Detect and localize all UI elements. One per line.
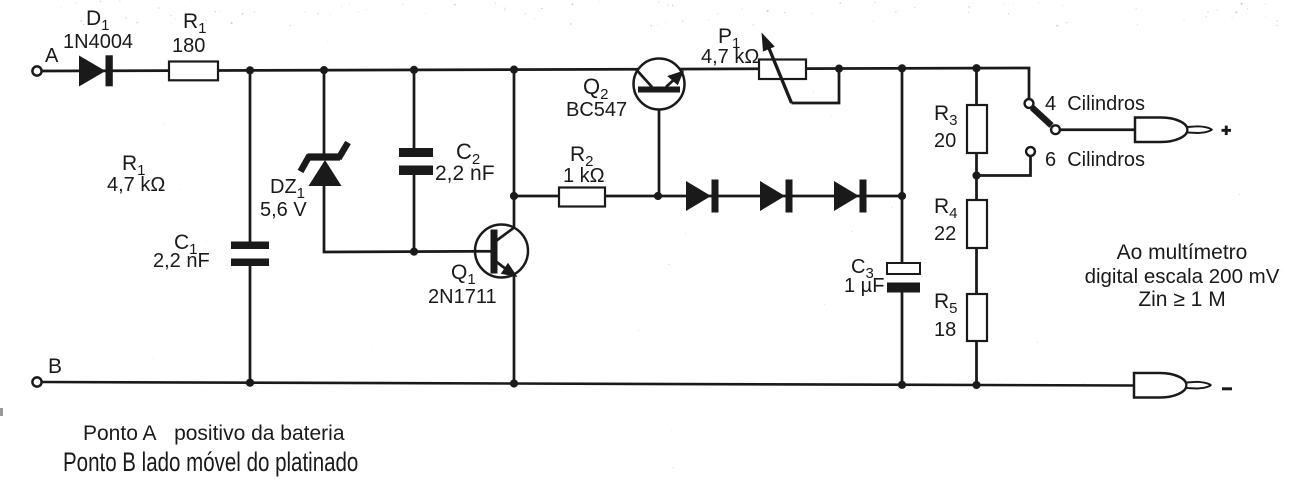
switch contact: 6 cylinders: [1026, 147, 1035, 156]
node: Q1 collector / R2: [510, 192, 518, 200]
switch contact: pole: [1051, 125, 1060, 134]
diode D2 (chain): [686, 180, 719, 213]
wire: C2 branch upper: [413, 70, 416, 149]
svg-text:digital escala 200 mV: digital escala 200 mV: [1085, 265, 1280, 288]
node: R3-R4 / 6-cylinder tap: [972, 171, 980, 179]
diode D4 (chain): [834, 180, 867, 213]
node: top rail / right rail: [898, 64, 906, 72]
wire: right vertical rail through C3 (upper): [901, 68, 904, 263]
svg-text:BC547: BC547: [566, 99, 627, 121]
wire: 6-cylinder contact to R3/R4 node: [977, 155, 1031, 176]
wire: right vertical rail through C3 (lower): [901, 293, 904, 385]
svg-text:4,7 kΩ: 4,7 kΩ: [701, 46, 759, 68]
node: bottom rail / Q1 emitter: [510, 379, 518, 387]
svg-text:1 µF: 1 µF: [844, 275, 884, 297]
label +: [1222, 126, 1232, 136]
diode D3 (chain): [760, 180, 793, 213]
svg-text:4,7 kΩ: 4,7 kΩ: [107, 174, 165, 196]
node: top rail / C1: [246, 66, 254, 74]
node: bottom rail / resistor chain: [972, 381, 980, 389]
svg-text:D1: D1: [86, 7, 110, 34]
wire: resistor chain rail R3-R4-R5: [975, 68, 978, 385]
wire: DZ1 branch upper: [323, 70, 326, 154]
node: top rail / P1 wiper return: [835, 65, 843, 73]
svg-text:R4: R4: [934, 195, 958, 222]
wire: switch pole to positive plug: [1060, 128, 1136, 131]
resistor R4 (22): [967, 200, 987, 248]
svg-text:5,6 V: 5,6 V: [260, 199, 307, 221]
resistor R3 (20): [967, 105, 987, 153]
resistor R2 (1 k): [559, 188, 605, 207]
terminal A: [32, 66, 41, 75]
capacitor C3 (1 uF): [887, 262, 920, 293]
svg-text:2,2 nF: 2,2 nF: [435, 162, 495, 185]
svg-text:Ao multímetro: Ao multímetro: [1117, 241, 1248, 264]
node: diode chain / right rail: [898, 192, 906, 200]
node: C2 / base line: [410, 248, 418, 256]
wire: top rail from terminal A to switch corner: [42, 68, 1030, 100]
svg-text:B: B: [48, 355, 62, 378]
svg-text:1 kΩ: 1 kΩ: [563, 165, 605, 187]
svg-text:2N1711: 2N1711: [428, 286, 497, 308]
node: bottom rail / C1: [246, 379, 254, 387]
svg-text:Zin ≥ 1 M: Zin ≥ 1 M: [1138, 288, 1225, 311]
svg-text:Q1: Q1: [451, 261, 476, 288]
svg-text:Ponto A positivo da bateria: Ponto A positivo da bateria: [83, 422, 345, 445]
resistor R5 (18): [967, 294, 987, 341]
potentiometer P1 (4,7 k): [759, 33, 839, 104]
transistor Q1 (2N1711): [475, 225, 528, 278]
zener diode DZ1 (5,6 V): [301, 143, 349, 187]
banana plug negative: [1134, 373, 1211, 398]
wire: R2 / diode chain line: [514, 195, 902, 198]
svg-text:20: 20: [934, 130, 956, 152]
banana plug positive: [1135, 118, 1212, 143]
wire: C1 branch upper: [249, 70, 252, 241]
node: top rail / C2: [410, 66, 418, 74]
node: Q2 base / R2 / diodes: [654, 192, 662, 200]
svg-text:Ponto B lado móvel do platinad: Ponto B lado móvel do platinado: [63, 447, 358, 477]
svg-text:180: 180: [172, 35, 205, 57]
wire: Q1 collector/emitter vertical: [513, 70, 516, 384]
svg-text:R3: R3: [934, 102, 958, 129]
node: top rail / DZ1: [320, 66, 328, 74]
svg-text:R1: R1: [183, 10, 207, 37]
node: top rail / Q1 collector: [510, 66, 518, 74]
svg-text:R5: R5: [934, 290, 958, 317]
diode D1: [79, 56, 106, 87]
svg-text:A: A: [45, 45, 59, 67]
transistor Q2 (BC547): [634, 59, 685, 110]
node: top rail / resistor chain: [972, 64, 980, 72]
wire: bottom rail from terminal B to negative plug: [42, 382, 1135, 386]
svg-text:4 Cilindros: 4 Cilindros: [1045, 93, 1145, 115]
switch SW1 lever: [1032, 108, 1052, 126]
node: bottom rail / right rail: [898, 381, 906, 389]
svg-text:6 Cilindros: 6 Cilindros: [1045, 149, 1145, 171]
label -: [1222, 387, 1232, 390]
switch contact: 4 cylinders: [1025, 99, 1034, 108]
wire: C2 branch lower: [413, 174, 416, 252]
resistor R1 (180): [169, 62, 218, 81]
terminal B: [32, 377, 41, 386]
capacitor C2 (2,2 nF): [399, 148, 433, 157]
wire: DZ1-C2 bottom line to Q1 base: [324, 184, 492, 252]
svg-text:22: 22: [934, 223, 956, 245]
capacitor C1 (2,2 nF): [231, 242, 269, 250]
svg-text:1N4004: 1N4004: [63, 31, 133, 53]
wire: Q2 base stem: [658, 91, 661, 196]
svg-text:2,2 nF: 2,2 nF: [153, 250, 210, 272]
svg-text:18: 18: [934, 319, 956, 341]
wire: C1 branch lower: [249, 266, 252, 383]
